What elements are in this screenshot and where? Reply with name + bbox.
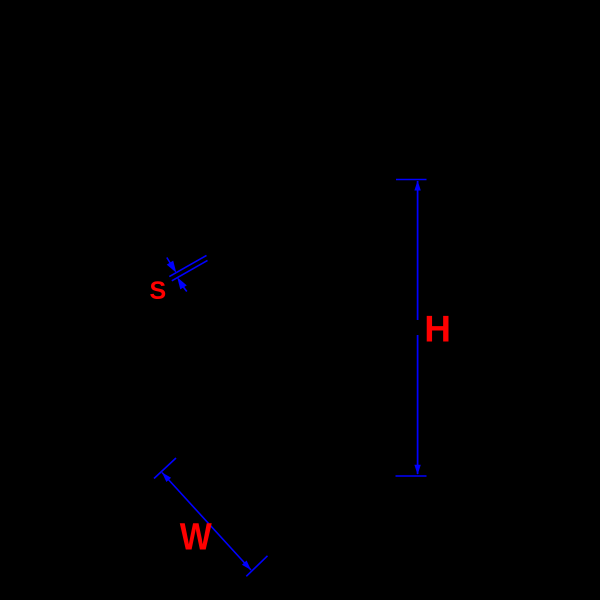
dimension W: upper-left arrowhead [162, 473, 171, 483]
dimension H: top extension tick [396, 179, 427, 181]
dimension H: bottom extension tick [396, 475, 427, 477]
dimension S: lower arrow shaft [183, 287, 187, 292]
dimension S: upper arrow shaft [167, 258, 171, 264]
dimension S: upper arrowhead [167, 261, 177, 273]
dimension H: up arrowhead [414, 181, 420, 191]
dimension S: lower extension line [172, 260, 208, 280]
dimension H: vertical line upper segment [417, 181, 419, 320]
dimension W: dimension line [162, 473, 251, 571]
dimension S: lower arrowhead [177, 277, 187, 289]
dimension W: upper-left extension tick [154, 458, 176, 479]
dimension H: down arrowhead [414, 465, 420, 475]
svg-text:H: H [424, 309, 451, 350]
dimension W: lower-right extension tick [246, 556, 267, 577]
dimension W: lower-right arrowhead [242, 561, 251, 571]
dimension H: vertical line lower segment [417, 335, 419, 474]
svg-text:W: W [180, 517, 212, 559]
svg-text:S: S [150, 277, 167, 305]
dimension S: upper extension line [169, 255, 206, 276]
